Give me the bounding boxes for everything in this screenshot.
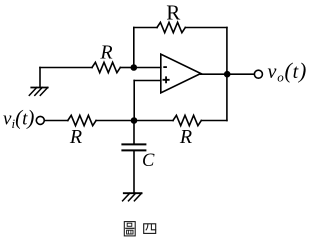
svg-text:R: R: [69, 126, 82, 148]
caption: figure four (hand-drawn CJK glyph 圖): [124, 222, 135, 236]
resistor R (middle right, to output): [173, 115, 201, 125]
wire: op-amp output to terminal: [201, 73, 254, 75]
value label C (italic): [142, 151, 155, 171]
node: minus input junction: [131, 64, 138, 71]
value label R (italic, right resistor): [179, 126, 192, 148]
svg-text:C: C: [142, 151, 155, 171]
op-amp plus pin label: [163, 76, 170, 83]
capacitor C: [122, 144, 145, 150]
svg-text:vo(t): vo(t): [268, 58, 307, 85]
op-amp minus pin label: [163, 66, 167, 68]
net label vo(t): [268, 58, 308, 85]
svg-text:R: R: [99, 42, 112, 64]
resistor R (feedback): [157, 22, 185, 32]
wire: feedback top left segment: [134, 27, 157, 29]
wire: capacitor down to ground: [133, 150, 135, 193]
value label R (feedback): [166, 1, 180, 25]
wire: ground to R (minus input row): [40, 67, 92, 69]
value label R (italic, input resistor): [69, 126, 82, 148]
svg-text:vi(t): vi(t): [3, 105, 34, 130]
wire: input R to middle node: [96, 120, 134, 122]
ground (top left): [29, 68, 47, 96]
op-amp U1: [161, 54, 201, 93]
wire: output vertical (feedback corner down through output node to lower R): [226, 28, 228, 121]
svg-text:R: R: [166, 1, 180, 25]
resistor R (minus input to ground): [92, 62, 120, 72]
value label R (italic, minus input resistor): [99, 42, 112, 64]
wire: middle node to right R: [134, 120, 173, 122]
wire: feedback left vertical (minus node up to feedback loop): [133, 28, 135, 68]
node: output junction: [224, 71, 231, 78]
net label vi(t): [3, 105, 34, 130]
terminal: vi open circle: [36, 116, 44, 124]
resistor R (input, left middle): [68, 115, 96, 125]
wire: middle node down to capacitor: [133, 121, 135, 145]
caption: figure four (hand-drawn CJK glyph 四): [144, 224, 156, 234]
wire: feedback top right segment: [185, 27, 227, 29]
svg-text:R: R: [179, 126, 192, 148]
wire: plus corner down to middle node: [133, 81, 135, 121]
wire: minus node to op-amp inverting input: [134, 67, 161, 69]
wire: right R to output vertical: [201, 120, 227, 122]
wire: R to minus node: [120, 67, 134, 69]
node: middle junction: [131, 117, 138, 124]
ground (bottom, below capacitor): [123, 193, 142, 201]
wire: plus corner to op-amp non-inverting input: [134, 80, 161, 82]
wire: vi terminal to R: [44, 120, 68, 122]
terminal: vo open circle: [254, 70, 262, 78]
